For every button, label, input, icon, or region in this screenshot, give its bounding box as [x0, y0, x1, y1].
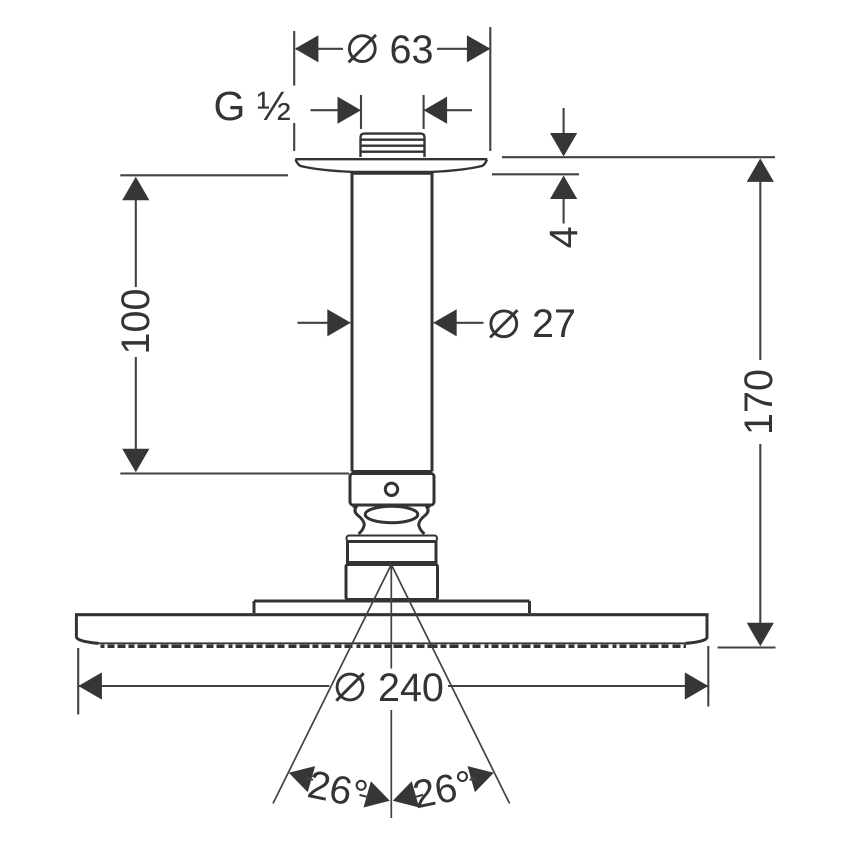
- dimension 4 extension line top: [502, 156, 775, 158]
- svg-text:170: 170: [737, 369, 781, 435]
- dimension Ø 240 label: [336, 666, 444, 710]
- svg-text:100: 100: [114, 289, 158, 355]
- shower head upper cylinder: [348, 542, 437, 563]
- dimension Ø 240 extension line right: [707, 646, 709, 707]
- angle 26 right stubs: [415, 778, 477, 797]
- connector screw hole: [385, 483, 397, 495]
- dimension 4 extension line bottom: [492, 173, 579, 175]
- shower head lower cylinder: [346, 565, 438, 600]
- svg-text:4: 4: [542, 226, 586, 248]
- ball joint sphere: [365, 506, 418, 522]
- angle 26 left stubs: [307, 778, 369, 797]
- dimension G 1/2 tick right: [423, 95, 425, 129]
- dimension Ø 240 line: [79, 685, 708, 687]
- dimension G 1/2 arrow right: [424, 97, 472, 124]
- ball joint housing: [353, 506, 431, 534]
- shower head body: [75, 614, 709, 643]
- spray center line: [390, 566, 392, 818]
- pipe connector box: [350, 474, 434, 506]
- angle 26 right arrow inner: [393, 781, 419, 807]
- dimension Ø 27 arrow right: [433, 309, 483, 336]
- dimension Ø 63 arrow right: [467, 35, 491, 62]
- dimension 170 arrow top: [747, 158, 774, 360]
- angle 26 left arrow outer: [289, 766, 315, 792]
- spray angle line right: [391, 565, 509, 804]
- svg-text:240: 240: [378, 666, 444, 710]
- angle 26 right arrow outer: [468, 766, 494, 792]
- shower head rim bottom line: [97, 642, 687, 644]
- G 1/2 thread stub: [361, 134, 425, 157]
- angle 26 left arrow inner: [364, 781, 390, 807]
- dimension 100 extension line bottom: [120, 472, 349, 474]
- pipe: [352, 173, 432, 472]
- svg-text:63: 63: [390, 28, 434, 72]
- dimension Ø 240 arrow right: [685, 672, 709, 699]
- dimension Ø 63 extension line left: [293, 31, 295, 151]
- dimension Ø 63 label: [349, 28, 434, 72]
- dimension Ø 27 arrow left: [298, 309, 351, 336]
- dimension Ø 240 extension line left: [77, 648, 79, 715]
- dimension Ø 63 line: [296, 48, 489, 50]
- dimension 100 arrow top: [122, 177, 149, 287]
- dimension Ø 63 extension line right: [489, 27, 491, 151]
- svg-text:G ½: G ½: [214, 83, 291, 129]
- shower head collar flange: [347, 536, 438, 542]
- spray angle line left: [273, 565, 391, 804]
- dimension 100 extension line top: [120, 174, 288, 176]
- dimension G 1/2 tick left: [360, 95, 362, 129]
- mounting plate on head: [254, 601, 530, 613]
- dimension 4 upper arrow: [550, 108, 577, 157]
- dimension 170 extension line bottom: [718, 646, 776, 648]
- spray nozzle face (dashed): [101, 644, 687, 648]
- svg-text:27: 27: [532, 302, 576, 346]
- dimension Ø 27 label: [490, 302, 576, 346]
- dimension G 1/2 arrow left: [311, 97, 362, 124]
- dimension 4 lower arrow: [550, 176, 577, 224]
- ceiling plate: [295, 159, 487, 173]
- dimension 100 arrow bottom: [122, 357, 149, 472]
- dimension 170 arrow bottom: [747, 444, 774, 646]
- dimension Ø 63 arrow left: [295, 35, 319, 62]
- dimension Ø 240 arrow left: [78, 672, 102, 699]
